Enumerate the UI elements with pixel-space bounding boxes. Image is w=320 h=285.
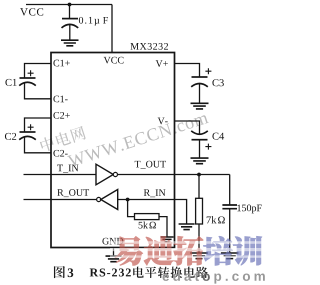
pin label C1- [53, 96, 59, 103]
IC U1 MX3232 box [51, 53, 175, 248]
caption 图3 RS-232电平转换电路 [54, 266, 65, 278]
wire C1+ [25, 64, 52, 78]
pin label V- [158, 118, 165, 125]
resistor R1 7k [196, 198, 203, 224]
ground below 7k [190, 253, 208, 259]
wire V- [175, 121, 200, 135]
capacitor C5 0.1uF [69, 5, 71, 19]
ground below 150pF [221, 253, 239, 259]
ground below 5k [161, 237, 174, 242]
pin label C2+ [53, 112, 59, 119]
net VCC label (top-left) [20, 8, 28, 15]
pin label VCC [104, 57, 111, 64]
inverter U1A T line [96, 164, 113, 185]
wire VCC rail top [26, 4, 112, 6]
wire V+ [175, 64, 200, 77]
pin label GND [102, 238, 108, 245]
capacitor C6 150pF [222, 205, 237, 209]
value label 5k [139, 222, 143, 229]
pin label T_IN [57, 165, 63, 172]
resistor R2 5k [135, 214, 160, 220]
wire R_OUT row [24, 199, 97, 201]
ground below GND pin [106, 256, 122, 262]
wire C2+ [25, 118, 52, 132]
value label 150pF [237, 205, 241, 212]
pin label C2- [53, 150, 59, 157]
capacitor C2 [20, 131, 36, 133]
watermark: gray diagonal 中电网 WWW.ECCN.com [39, 88, 209, 175]
pin label R_IN [144, 189, 150, 196]
inverter U1B R line [97, 197, 101, 201]
wire C2- [25, 137, 52, 153]
wire GND pin stem [113, 248, 115, 256]
ground below C3 [191, 103, 209, 109]
label C1 [5, 79, 11, 86]
ground below C4 [191, 158, 209, 164]
ground at R_IN input [179, 224, 195, 230]
wire 150pF drop [229, 175, 231, 205]
wire T_IN row [24, 174, 97, 176]
pin label T_OUT [135, 161, 141, 168]
wire 7k drop [198, 175, 200, 199]
wire R_IN row [118, 199, 175, 201]
wire 5k drop [128, 200, 135, 217]
label C3 [212, 79, 218, 86]
wire 5k to ground [159, 217, 167, 237]
capacitor C4 [191, 131, 208, 134]
value label 0.1uF [79, 17, 83, 24]
label C4 [212, 133, 218, 140]
pin label R_OUT [57, 189, 63, 196]
wire VCC drop into IC VCC pin [111, 5, 113, 53]
node T_OUT / 7k junction [197, 173, 201, 177]
label C2 [5, 133, 11, 140]
white scan bands over watermark [110, 241, 262, 258]
value label 7k [207, 217, 211, 224]
pin label C1+ [53, 60, 59, 67]
capacitor C3 [192, 76, 208, 78]
wire C1- [25, 83, 52, 99]
pin label V+ [156, 60, 163, 67]
watermark gray edatop.com [163, 274, 170, 281]
node R_IN / 5k junction [126, 198, 130, 202]
wire T_OUT row [118, 174, 230, 176]
node junction VCC rail / C5 [68, 3, 72, 7]
label MX3232 [130, 43, 138, 50]
capacitor C1 [20, 77, 36, 79]
wire R_IN external to ground [175, 200, 187, 224]
ground below C5 [61, 40, 79, 46]
watermark red 易迪拓 blue 培训 [115, 236, 262, 265]
